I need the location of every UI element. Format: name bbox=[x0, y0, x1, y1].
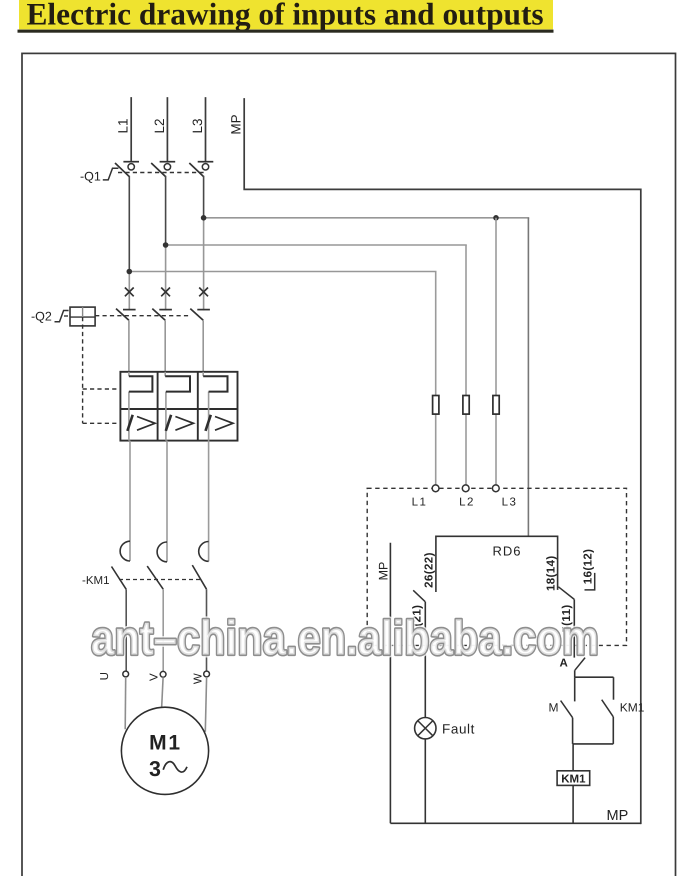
fuse F2 bbox=[463, 396, 469, 415]
svg-text:M: M bbox=[549, 701, 559, 715]
svg-text:L2: L2 bbox=[152, 118, 167, 133]
breaker Q1 pole 1 bbox=[123, 161, 139, 163]
wire fuse1 to terminal L1 bbox=[435, 414, 437, 485]
wire fuse3 to terminal L3 bbox=[495, 414, 497, 485]
wire pole3 down to node bbox=[203, 177, 205, 218]
wire pole1 bbox=[128, 320, 130, 372]
svg-text:L3: L3 bbox=[190, 118, 205, 133]
Q2 linkage dashed left stub bbox=[64, 315, 70, 317]
X mark pole 2 bbox=[161, 288, 170, 297]
contactor arc 1 bbox=[120, 541, 130, 561]
contactor blade 3 bbox=[192, 565, 206, 589]
junction node 1 bbox=[127, 269, 133, 275]
Q2 trip dashed vertical bbox=[82, 317, 84, 423]
heater element 2 bbox=[165, 376, 190, 391]
wire node2 to X mark bbox=[165, 245, 167, 310]
svg-text:KM1: KM1 bbox=[620, 701, 645, 715]
wires Q1 to tap nodes bbox=[129, 177, 528, 310]
wire pole2 bbox=[164, 320, 166, 372]
breaker Q1 pole 2 bbox=[160, 161, 176, 163]
svg-text:U: U bbox=[99, 672, 111, 680]
wire pole3 bbox=[202, 320, 204, 372]
wire branch M lower lead bbox=[572, 718, 574, 744]
fuse F1 bbox=[433, 396, 439, 415]
svg-text:KM1: KM1 bbox=[561, 773, 586, 785]
svg-text:18(14): 18(14) bbox=[545, 555, 557, 591]
svg-text:ant–china.en.alibaba.com: ant–china.en.alibaba.com bbox=[91, 612, 599, 666]
breaker Q2 release box bbox=[70, 307, 95, 326]
breaker Q1 pole 3 bbox=[198, 161, 214, 163]
svg-text:W: W bbox=[193, 673, 205, 684]
svg-text:3: 3 bbox=[149, 757, 161, 781]
wire branch KM1 aux upper lead bbox=[613, 677, 615, 700]
wire lamp to rail bbox=[424, 739, 426, 823]
wire L2 incoming bbox=[166, 98, 168, 162]
svg-text:MP: MP bbox=[228, 114, 243, 134]
terminal W bbox=[204, 671, 210, 677]
Q2 linkage dashed bbox=[95, 315, 190, 317]
wire contactor pole3 to terminal W bbox=[206, 589, 208, 671]
wire tap to fuse1 bbox=[435, 272, 437, 396]
wire tap to fuse2 bbox=[465, 245, 467, 396]
lamp cross bbox=[418, 721, 433, 736]
contactor blade 1 bbox=[112, 567, 127, 590]
lamp Fault bbox=[415, 718, 436, 739]
dashed enclosure bbox=[367, 488, 626, 645]
motor sine glyph bbox=[163, 762, 187, 772]
wire V to motor bbox=[162, 677, 164, 708]
wire MP incoming and run to right side bbox=[244, 99, 641, 823]
contactor arc 2 bbox=[157, 542, 167, 562]
wire phase1 out of heater bbox=[128, 392, 130, 441]
svg-text:-Q1: -Q1 bbox=[80, 170, 101, 184]
wire MP stub inside enclosure bbox=[389, 543, 391, 824]
contact KM1 aux blade bbox=[602, 700, 614, 717]
wire tap L3 horizontal bbox=[204, 217, 529, 219]
wire L1 incoming bbox=[130, 98, 132, 162]
Q2 pole 3 bar and blade bbox=[197, 309, 210, 311]
relay contact blade left bbox=[413, 590, 425, 601]
I> symbol cell 1 bbox=[127, 415, 132, 431]
wire phase1 into heater bbox=[128, 372, 130, 376]
wire phase2 into heater bbox=[164, 372, 166, 376]
contactor linkage dashed bbox=[119, 579, 202, 581]
terminal L3 bbox=[492, 485, 499, 492]
wire fuse2 to terminal L2 bbox=[465, 414, 467, 485]
terminal L2 bbox=[462, 485, 469, 492]
wire parallel top bbox=[575, 676, 614, 678]
wire W to motor bbox=[205, 677, 206, 732]
svg-text:Electric drawing of inputs and: Electric drawing of inputs and outputs bbox=[27, 0, 544, 32]
wire U to motor bbox=[124, 677, 127, 729]
overload block frame bbox=[120, 372, 237, 441]
I> symbol cell 2 bbox=[166, 415, 171, 431]
breaker Q1 contact circle 2 bbox=[164, 164, 170, 170]
X mark pole 1 bbox=[125, 288, 134, 297]
wire contactor pole2 to terminal V bbox=[162, 589, 164, 671]
terminal V bbox=[160, 671, 166, 677]
wire 21 down to lamp bbox=[424, 602, 426, 718]
wire node1 to X mark bbox=[128, 272, 130, 310]
wire branch KM1 aux lower lead bbox=[612, 717, 614, 744]
svg-text:L1: L1 bbox=[412, 497, 428, 509]
RD6 box bbox=[436, 536, 558, 592]
wire branch M upper lead bbox=[574, 677, 576, 701]
wire node3 to X mark bbox=[203, 218, 205, 310]
terminal L1 bbox=[432, 485, 439, 492]
title highlight bar bbox=[19, 0, 553, 29]
Q2 trip dashed branch row1 bbox=[83, 388, 121, 390]
junction node 2 bbox=[163, 242, 169, 248]
wire pole1 down to node bbox=[128, 177, 130, 272]
svg-text:L3: L3 bbox=[502, 497, 518, 509]
motor M1 circle bbox=[121, 707, 208, 794]
wire phase3 into heater bbox=[202, 372, 204, 376]
wire A down bbox=[574, 670, 576, 677]
heater element 3 bbox=[203, 376, 227, 391]
pin 16(12) lead bbox=[585, 573, 595, 590]
svg-text:26(22): 26(22) bbox=[423, 552, 435, 588]
svg-text:RD6: RD6 bbox=[492, 544, 521, 559]
heater element 1 bbox=[129, 376, 153, 391]
wires Q2 to overload block bbox=[129, 320, 203, 372]
wire phase3 block to contactor bbox=[208, 441, 210, 562]
coil KM1 bbox=[557, 771, 590, 786]
breaker Q2 handle glyph bbox=[55, 311, 69, 322]
svg-text:-Q2: -Q2 bbox=[31, 310, 52, 324]
terminal U bbox=[123, 671, 129, 677]
svg-text:-KM1: -KM1 bbox=[82, 575, 109, 587]
svg-text:V: V bbox=[149, 673, 161, 681]
wire coil to rail bbox=[572, 785, 574, 823]
Q2 pole 1 bar and blade bbox=[123, 309, 136, 311]
svg-text:L2: L2 bbox=[459, 497, 475, 509]
contact A blade bbox=[575, 658, 585, 671]
bottom rail MP bbox=[390, 822, 640, 824]
breaker Q1 linkage dashed bbox=[118, 172, 204, 174]
contactor arc 3 bbox=[199, 542, 209, 562]
junction node 3 bbox=[201, 215, 207, 221]
wire L3 to RD6 input bbox=[527, 218, 529, 537]
wire pole2 down to node bbox=[165, 177, 167, 245]
breaker Q1 handle glyph bbox=[103, 168, 119, 180]
wire phase1 block to contactor bbox=[129, 441, 131, 561]
wire tap L1 horizontal bbox=[129, 271, 435, 273]
wire phase2 out of heater bbox=[165, 392, 167, 441]
svg-text:L1: L1 bbox=[116, 118, 131, 133]
svg-text:Fault: Fault bbox=[442, 722, 475, 737]
watermark bbox=[91, 612, 599, 666]
wire phase2 block to contactor bbox=[166, 441, 168, 562]
fuse F3 bbox=[493, 396, 499, 415]
X mark pole 3 bbox=[199, 288, 208, 297]
wire to coil bbox=[572, 744, 574, 771]
wire L3 incoming bbox=[205, 98, 207, 162]
Q2 trip dashed branch row2 bbox=[83, 422, 121, 424]
wire tap to fuse3 bbox=[495, 218, 497, 396]
wire phase3 out of heater bbox=[208, 392, 210, 441]
breaker Q1 contact circle 3 bbox=[202, 164, 208, 170]
wire parallel bottom bbox=[573, 743, 614, 745]
wire tap L2 horizontal bbox=[166, 244, 466, 246]
svg-text:MP: MP bbox=[607, 808, 629, 824]
relay changeover blade right bbox=[558, 587, 574, 600]
wire 11 common down bbox=[573, 599, 575, 657]
svg-text:16(12): 16(12) bbox=[582, 549, 594, 585]
Q2 pole 2 bar and blade bbox=[159, 309, 172, 311]
svg-text:M1: M1 bbox=[149, 732, 182, 755]
wire contactor pole1 to terminal U bbox=[125, 589, 127, 671]
I> symbol cell 3 bbox=[206, 415, 211, 431]
contactor blade 2 bbox=[147, 566, 163, 589]
svg-text:MP: MP bbox=[377, 562, 391, 581]
breaker Q1 contact circle 1 bbox=[128, 164, 134, 170]
contact M blade bbox=[561, 701, 573, 718]
junction node fuse3 tap bbox=[493, 215, 499, 221]
title underline bbox=[18, 30, 554, 33]
